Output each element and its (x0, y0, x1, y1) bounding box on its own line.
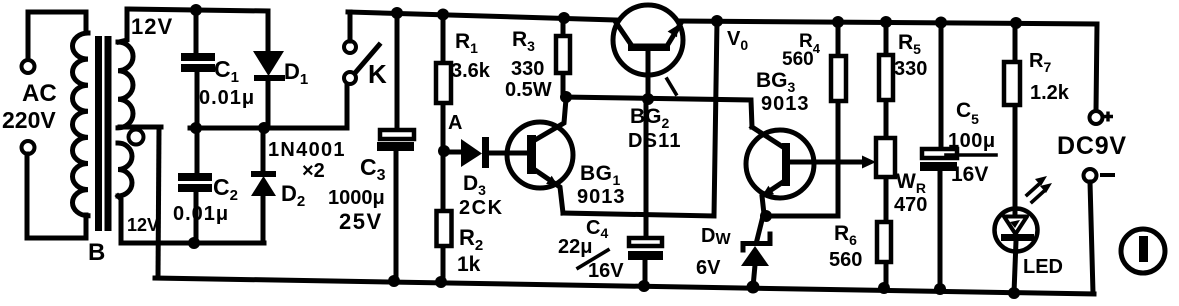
svg-text:16V: 16V (588, 260, 624, 282)
svg-text:9013: 9013 (577, 186, 626, 208)
svg-text:C3: C3 (360, 154, 386, 184)
svg-text:K: K (368, 59, 387, 89)
svg-text:9013: 9013 (761, 93, 810, 115)
svg-text:D3: D3 (463, 172, 486, 198)
svg-text:D2: D2 (281, 181, 305, 210)
svg-text:470: 470 (894, 194, 927, 216)
svg-text:DC9V: DC9V (1057, 132, 1127, 160)
svg-text:220V: 220V (2, 107, 56, 133)
svg-text:R2: R2 (459, 225, 483, 254)
svg-text:C1: C1 (214, 56, 239, 86)
svg-text:0.01μ: 0.01μ (199, 87, 255, 109)
svg-text:1N4001: 1N4001 (268, 139, 346, 161)
svg-text:25V: 25V (339, 209, 383, 234)
svg-text:1.2k: 1.2k (1030, 82, 1070, 104)
svg-text:560: 560 (829, 249, 862, 271)
svg-text:3.6k: 3.6k (451, 60, 491, 82)
svg-text:LED: LED (1023, 256, 1063, 278)
svg-text:R5: R5 (898, 31, 921, 57)
svg-text:AC: AC (22, 80, 57, 107)
svg-text:1k: 1k (457, 253, 481, 276)
svg-text:22μ: 22μ (558, 236, 592, 258)
svg-text:V0: V0 (727, 28, 748, 53)
svg-text:×2: ×2 (302, 160, 325, 182)
svg-text:R6: R6 (834, 222, 857, 248)
svg-text:R3: R3 (512, 28, 535, 54)
svg-text:2CK: 2CK (459, 197, 504, 219)
svg-text:0.01μ: 0.01μ (173, 203, 229, 225)
svg-text:B: B (88, 239, 105, 266)
svg-text:DW: DW (701, 225, 731, 248)
svg-text:BG2: BG2 (630, 105, 670, 131)
svg-text:330: 330 (511, 58, 544, 80)
svg-text:R7: R7 (1029, 50, 1051, 75)
svg-text:DS11: DS11 (628, 130, 682, 152)
svg-text:C5: C5 (956, 99, 979, 127)
svg-text:12V: 12V (127, 215, 159, 235)
svg-text:R1: R1 (455, 30, 478, 56)
svg-text:100μ: 100μ (948, 130, 996, 152)
svg-text:WR: WR (896, 170, 926, 196)
svg-text:C2: C2 (213, 174, 238, 204)
svg-text:BG3: BG3 (756, 69, 796, 95)
svg-text:BG1: BG1 (580, 162, 621, 188)
svg-text:330: 330 (894, 58, 927, 80)
svg-text:16V: 16V (951, 163, 988, 186)
svg-text:6V: 6V (696, 257, 721, 279)
svg-text:0.5W: 0.5W (505, 79, 552, 101)
svg-text:560: 560 (782, 49, 814, 70)
svg-text:A: A (448, 112, 462, 134)
svg-text:D1: D1 (284, 59, 308, 88)
svg-text:1000μ: 1000μ (328, 187, 385, 209)
svg-text:12V: 12V (131, 14, 173, 39)
